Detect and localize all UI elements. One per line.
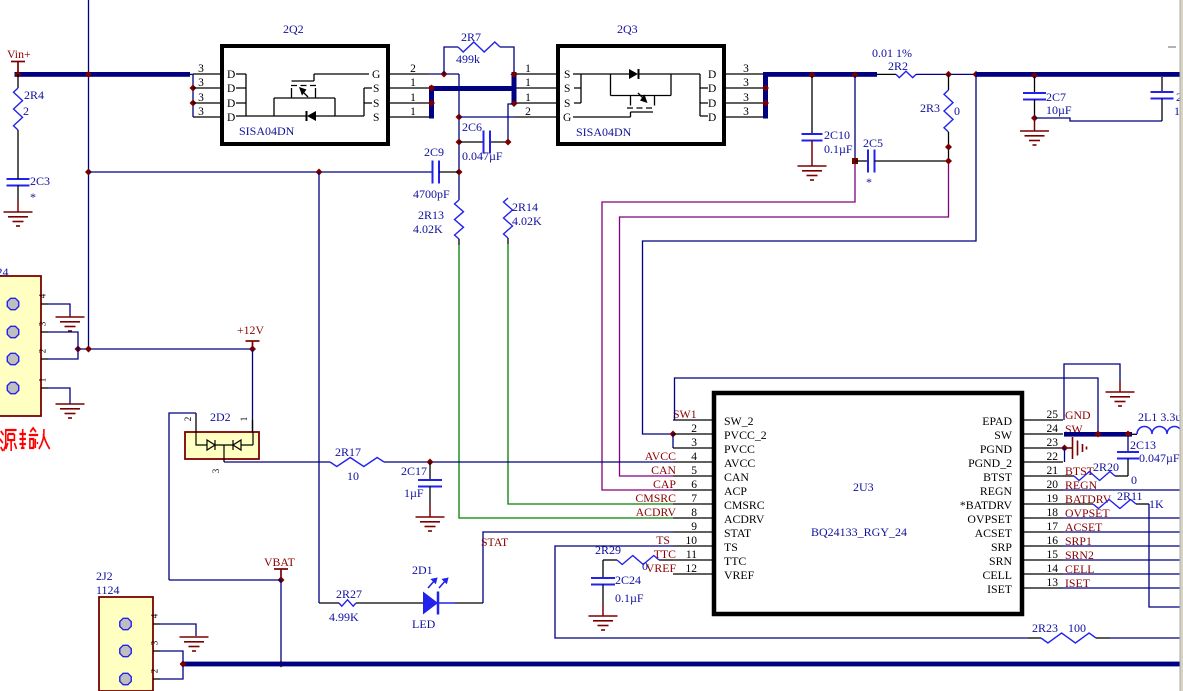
wire VBAT down to battery bus bbox=[280, 580, 282, 664]
svg-text:0.047µF: 0.047µF bbox=[462, 149, 503, 163]
svg-text:2Q3: 2Q3 bbox=[617, 22, 638, 36]
svg-text:CMSRC: CMSRC bbox=[635, 491, 676, 505]
wire STAT net bbox=[483, 532, 673, 603]
svg-text:G: G bbox=[372, 69, 380, 81]
wire thick bar left (2Q2 S pins) bbox=[429, 86, 434, 119]
svg-text:3: 3 bbox=[211, 468, 221, 473]
node x459 y117 bbox=[456, 114, 463, 121]
svg-text:3: 3 bbox=[198, 106, 204, 118]
svg-text:TS: TS bbox=[656, 533, 670, 547]
svg-text:PGND: PGND bbox=[980, 442, 1013, 456]
node 2Q3 D bar junctions bbox=[762, 85, 769, 92]
svg-text:4: 4 bbox=[150, 613, 160, 618]
wire x319 vertical (Vin sense to LED) bbox=[318, 172, 320, 603]
ground below 2C17 bbox=[416, 517, 445, 531]
svg-text:3: 3 bbox=[691, 437, 697, 449]
svg-text:SW_2: SW_2 bbox=[724, 414, 754, 428]
svg-text:2: 2 bbox=[410, 63, 416, 75]
ground below 2C3 bbox=[17, 186, 19, 201]
wire 2C7 bottom to right cap bbox=[1035, 118, 1163, 121]
svg-text:SRP: SRP bbox=[991, 540, 1012, 554]
node SW junctions bbox=[1095, 431, 1102, 438]
svg-text:1124: 1124 bbox=[96, 583, 120, 597]
node x88 bottom bbox=[85, 346, 92, 353]
power port VBAT bbox=[274, 569, 288, 580]
svg-text:2C6: 2C6 bbox=[462, 120, 482, 134]
svg-text:1µF: 1µF bbox=[404, 486, 424, 500]
wire conn pin4 to ground bbox=[48, 304, 70, 317]
svg-text:G: G bbox=[563, 112, 571, 124]
svg-text:S: S bbox=[564, 98, 570, 110]
svg-text:5: 5 bbox=[691, 465, 697, 477]
node 2R3 bottom bbox=[945, 144, 952, 151]
svg-text:PVCC_2: PVCC_2 bbox=[724, 428, 767, 442]
svg-text:AVCC: AVCC bbox=[724, 456, 755, 470]
resistor 2R7 499k bbox=[444, 47, 458, 74]
ground conn pin1 bbox=[56, 404, 85, 418]
svg-text:23: 23 bbox=[1047, 437, 1059, 449]
node 2Q2 S pin junction bbox=[428, 100, 435, 107]
wire VIN+ top bus left segment (thick) bbox=[15, 72, 191, 77]
svg-text:2: 2 bbox=[525, 106, 531, 118]
svg-text:D: D bbox=[227, 98, 235, 110]
svg-text:2R29: 2R29 bbox=[595, 543, 621, 557]
svg-text:2: 2 bbox=[183, 417, 193, 422]
wire ACSET net bbox=[1063, 531, 1181, 533]
svg-text:0: 0 bbox=[1131, 473, 1137, 487]
svg-text:CELL: CELL bbox=[983, 568, 1013, 582]
svg-text:4: 4 bbox=[691, 451, 697, 463]
2U3 left pins 1-12 bbox=[673, 419, 714, 421]
wire 2D2 pin3 to 2R17 bbox=[224, 461, 330, 463]
node VBAT on bus bbox=[278, 661, 285, 668]
wire 2Q3 D bar (thick) bbox=[763, 72, 768, 119]
transistor 2Q2 body bbox=[222, 46, 388, 144]
node x=88 y=172 bbox=[85, 169, 92, 176]
svg-text:3: 3 bbox=[150, 640, 160, 645]
capacitor 2C6 0.047uF bbox=[459, 141, 484, 143]
svg-text:1124: 1124 bbox=[0, 265, 9, 279]
wire 2J2 pin3 to bus bbox=[160, 651, 183, 662]
node 2Q3 S bar top bbox=[511, 71, 518, 78]
svg-text:10: 10 bbox=[347, 469, 359, 483]
node 2Q2 S pin junction row88 bbox=[428, 85, 435, 92]
node 2Q2 D manifold junctions bbox=[190, 85, 197, 92]
wire AVCC row to chip bbox=[430, 461, 673, 463]
wire 2Q2 gate to vertical x459 bbox=[429, 73, 459, 75]
svg-text:3: 3 bbox=[198, 77, 204, 89]
wire vertical x459 gate column bbox=[458, 74, 460, 200]
svg-text:BQ24133_RGY_24: BQ24133_RGY_24 bbox=[811, 525, 907, 539]
svg-text:REGN: REGN bbox=[980, 484, 1013, 498]
svg-text:D: D bbox=[227, 83, 235, 95]
svg-text:2R14: 2R14 bbox=[512, 200, 538, 214]
wire SRN2 net bbox=[1063, 559, 1181, 561]
svg-text:CMSRC: CMSRC bbox=[724, 498, 765, 512]
2D2 internal diodes bbox=[196, 432, 253, 459]
svg-text:22: 22 bbox=[1047, 451, 1059, 463]
svg-text:SRN: SRN bbox=[989, 554, 1012, 568]
svg-text:2R23: 2R23 bbox=[1032, 621, 1058, 635]
node 2C6 right bbox=[505, 139, 512, 146]
2Q3 body diode (solid) bbox=[629, 69, 638, 79]
sheet right edge bbox=[1181, 0, 1183, 691]
wire top bus thick mid segment bbox=[763, 72, 877, 77]
capacitor 2C8 (clipped at sheet edge) bbox=[1161, 77, 1163, 92]
node VBAT bbox=[278, 577, 285, 584]
svg-text:S: S bbox=[373, 83, 379, 95]
capacitor 2C3 bbox=[7, 179, 30, 186]
svg-text:2C7: 2C7 bbox=[1046, 90, 1066, 104]
wire TS net loop bbox=[555, 546, 1028, 638]
svg-text:D: D bbox=[708, 112, 716, 124]
resistor 2R20 0 bbox=[1063, 475, 1074, 477]
svg-text:2Q2: 2Q2 bbox=[283, 22, 304, 36]
svg-text:1: 1 bbox=[239, 417, 249, 422]
wire conn pin3 bbox=[48, 332, 78, 349]
2Q2 internal mosfet symbol bbox=[236, 74, 372, 116]
wire PVCC_2/PVCC link bbox=[672, 434, 674, 448]
ground 2J2 pin4 bbox=[180, 637, 209, 651]
2D2 pin 1 bbox=[252, 420, 254, 432]
svg-text:2C3: 2C3 bbox=[30, 174, 50, 188]
svg-text:0: 0 bbox=[954, 104, 960, 118]
2U3 right pins 25-13 bbox=[1022, 419, 1063, 421]
wire AVCC net: bus to pin4 region bbox=[643, 77, 977, 434]
svg-text:20: 20 bbox=[1047, 479, 1059, 491]
svg-text:12: 12 bbox=[686, 563, 698, 575]
capacitor 2C9 4700pF bbox=[89, 171, 433, 173]
wire +12V row bbox=[78, 348, 253, 350]
svg-text:2L1 3.3u: 2L1 3.3u bbox=[1138, 410, 1181, 424]
svg-text:2R7: 2R7 bbox=[461, 30, 481, 44]
svg-text:STAT: STAT bbox=[481, 535, 509, 549]
resistor 2R13 4.02K bbox=[455, 200, 464, 239]
wire bus stub to 2Q2 pins bbox=[188, 73, 193, 75]
power port Vin+ bbox=[11, 62, 25, 75]
svg-text:13: 13 bbox=[1047, 577, 1059, 589]
svg-text:2R20: 2R20 bbox=[1093, 460, 1119, 474]
svg-text:3: 3 bbox=[198, 92, 204, 104]
connector 2J2 pins bbox=[153, 623, 160, 625]
wire jog from S bar to 2C6/2R14 column bbox=[508, 104, 513, 142]
svg-text:2: 2 bbox=[23, 104, 29, 118]
connector 2J2 body bbox=[99, 597, 153, 691]
svg-text:24: 24 bbox=[1047, 423, 1059, 435]
connector 2J2 pads bbox=[120, 618, 131, 629]
resistor 2R27 4.99K bbox=[339, 600, 356, 606]
transistor 2Q3 body bbox=[558, 46, 724, 144]
svg-text:OVPSET: OVPSET bbox=[967, 512, 1012, 526]
svg-text:4700pF: 4700pF bbox=[413, 187, 450, 201]
svg-text:2D2: 2D2 bbox=[210, 410, 231, 424]
resistor 2R23 100 bbox=[1028, 637, 1041, 639]
svg-text:2C17: 2C17 bbox=[401, 464, 427, 478]
svg-text:1: 1 bbox=[410, 92, 416, 104]
wire green 2R14 to CMSRC pin 7 bbox=[507, 238, 509, 244]
svg-text:6: 6 bbox=[691, 479, 697, 491]
node x459 y142 (2C6 left) bbox=[456, 139, 463, 146]
wire vertical x855 bus to 2C5 bbox=[852, 72, 859, 79]
wire bottom battery bus (thick) bbox=[182, 662, 1183, 667]
svg-text:1: 1 bbox=[38, 378, 48, 383]
svg-text:S: S bbox=[373, 112, 379, 124]
svg-text:3: 3 bbox=[743, 92, 749, 104]
node 2C9 row x319 bbox=[316, 169, 323, 176]
2Q3 right pins D x4 bbox=[724, 73, 765, 75]
svg-text:21: 21 bbox=[1047, 465, 1059, 477]
svg-text:1: 1 bbox=[1174, 104, 1180, 118]
node bus left end bbox=[180, 661, 187, 668]
wire +12V down to 2D2 pin1 bbox=[252, 349, 254, 432]
wire BATDRV net down right side bbox=[1149, 504, 1181, 607]
svg-text:PVCC: PVCC bbox=[724, 442, 755, 456]
wire VBAT row bbox=[169, 579, 281, 581]
svg-text:2C10: 2C10 bbox=[824, 128, 850, 142]
2Q3 left pins S,S,S,G bbox=[517, 73, 559, 75]
connector 2J1 (clipped) body bbox=[0, 276, 41, 416]
svg-text:2R4: 2R4 bbox=[24, 88, 44, 102]
svg-text:4.02K: 4.02K bbox=[512, 214, 542, 228]
svg-text:LED: LED bbox=[412, 617, 436, 631]
svg-text:VBAT: VBAT bbox=[264, 555, 296, 569]
svg-text:15: 15 bbox=[1047, 549, 1059, 561]
svg-text:GND: GND bbox=[1065, 408, 1091, 422]
svg-text:SW: SW bbox=[994, 428, 1013, 442]
wire SRP1 net bbox=[1063, 545, 1181, 547]
node 2C7 bottom bbox=[1031, 115, 1038, 122]
node 2C5 left junction (square) bbox=[852, 158, 858, 164]
node 2R2/2R3 junction bbox=[945, 71, 952, 78]
2Q2 body diode (solid) bbox=[307, 111, 316, 121]
svg-text:1: 1 bbox=[410, 106, 416, 118]
svg-text:2U3: 2U3 bbox=[853, 480, 874, 494]
capacitor 2C24 0.1uF bbox=[602, 560, 604, 578]
svg-text:2C24: 2C24 bbox=[615, 573, 641, 587]
resistor 2R11 1K bbox=[1063, 503, 1093, 505]
svg-text:2R17: 2R17 bbox=[335, 445, 361, 459]
wire green 2R13 to ACDRV pin 8 bbox=[458, 239, 460, 245]
wire GND net to ground top right bbox=[1064, 364, 1120, 420]
svg-text:*: * bbox=[30, 190, 36, 204]
wire vertical x=88 from sheet top through bus down to +12V row bbox=[88, 0, 90, 349]
2D2 pin 3 bbox=[223, 459, 225, 462]
svg-text:1: 1 bbox=[525, 92, 531, 104]
svg-text:2R13: 2R13 bbox=[418, 208, 444, 222]
svg-text:2C5: 2C5 bbox=[863, 136, 883, 150]
wire SW thick bus bbox=[1064, 432, 1132, 437]
node x459 y172 (2C9) bbox=[456, 169, 463, 176]
capacitor 2C17 1uF bbox=[429, 462, 431, 480]
wire CELL net bbox=[1063, 573, 1181, 575]
svg-text:8: 8 bbox=[691, 507, 697, 519]
svg-text:3: 3 bbox=[198, 63, 204, 75]
svg-text:11: 11 bbox=[686, 549, 697, 561]
resistor 2R3 0 bbox=[948, 74, 950, 90]
capacitor 2C7 10uF bbox=[1031, 72, 1038, 79]
IC 2U3 BQ24133_RGY_24 body bbox=[714, 393, 1022, 614]
inductor 2L1 3.3uH bbox=[1132, 433, 1137, 435]
svg-text:SISA04DN: SISA04DN bbox=[239, 124, 295, 138]
svg-text:1K: 1K bbox=[1149, 497, 1164, 511]
svg-text:17: 17 bbox=[1047, 521, 1059, 533]
svg-text:100: 100 bbox=[1068, 621, 1086, 635]
svg-text:4: 4 bbox=[38, 293, 48, 298]
ground GND net bbox=[1106, 392, 1135, 406]
svg-text:3: 3 bbox=[743, 77, 749, 89]
wire purple CAN net: 2C5 right to CAN pin5 bbox=[620, 164, 949, 476]
svg-text:9: 9 bbox=[691, 521, 697, 533]
wire 2Q3 gate row y117 bbox=[459, 116, 515, 118]
svg-text:D: D bbox=[708, 83, 716, 95]
node bus x=88 bbox=[85, 71, 92, 78]
svg-text:CAN: CAN bbox=[724, 470, 749, 484]
svg-text:ACDRV: ACDRV bbox=[724, 512, 765, 526]
svg-text:2J2: 2J2 bbox=[96, 569, 113, 583]
wire conn pin2 bbox=[48, 349, 78, 359]
svg-text:*: * bbox=[866, 175, 872, 189]
svg-text:2D1: 2D1 bbox=[412, 563, 433, 577]
svg-text:1: 1 bbox=[525, 63, 531, 75]
ground below 2C7 bbox=[1034, 118, 1036, 131]
svg-text:SW1: SW1 bbox=[673, 407, 697, 421]
svg-text:1: 1 bbox=[410, 77, 416, 89]
svg-text:EPAD: EPAD bbox=[982, 414, 1012, 428]
svg-text:AVCC: AVCC bbox=[645, 449, 676, 463]
svg-text:2: 2 bbox=[38, 349, 48, 354]
svg-text:S: S bbox=[373, 98, 379, 110]
svg-text:SISA04DN: SISA04DN bbox=[576, 125, 632, 139]
svg-text:1: 1 bbox=[525, 77, 531, 89]
svg-text:0.01 1%: 0.01 1% bbox=[872, 46, 912, 60]
svg-text:D: D bbox=[227, 69, 235, 81]
svg-text:BTST: BTST bbox=[983, 470, 1013, 484]
capacitor 2C13 0.047uF bbox=[1127, 436, 1129, 452]
wire OVPSET net bbox=[1063, 517, 1181, 519]
svg-text:ACDRV: ACDRV bbox=[636, 505, 677, 519]
svg-text:D: D bbox=[708, 69, 716, 81]
wire purple CAP net: 2C5 left to ACP pin6 bbox=[602, 164, 855, 490]
svg-text:14: 14 bbox=[1047, 563, 1059, 575]
wire 2J2 pin2 to bus bbox=[160, 666, 183, 679]
svg-text:Vin+: Vin+ bbox=[7, 47, 31, 61]
svg-text:D: D bbox=[708, 98, 716, 110]
svg-text:VREF: VREF bbox=[646, 561, 677, 575]
2Q2 left pins D x4 bbox=[193, 73, 222, 75]
node 2C5 right junction bbox=[945, 158, 952, 165]
wire 2D2 pin2 up-left-down to VBAT node bbox=[169, 413, 196, 580]
svg-text:ISET: ISET bbox=[987, 582, 1013, 596]
wire thick bar right (2Q3 S pins) bbox=[512, 72, 517, 104]
svg-text:10µF: 10µF bbox=[1046, 103, 1072, 117]
svg-text:D: D bbox=[227, 112, 235, 124]
svg-text:ACP: ACP bbox=[724, 484, 747, 498]
connector 2J1 pins bbox=[41, 303, 48, 305]
connector 2J1 pads bbox=[7, 298, 18, 309]
svg-text:ACSET: ACSET bbox=[975, 526, 1013, 540]
svg-text:2C9: 2C9 bbox=[424, 145, 444, 159]
ground below 2C24 bbox=[589, 616, 618, 630]
svg-text:0.1µF: 0.1µF bbox=[824, 142, 853, 156]
svg-text:2: 2 bbox=[691, 423, 697, 435]
wire conn pin1 to ground bbox=[48, 388, 70, 404]
svg-text:3: 3 bbox=[38, 321, 48, 326]
svg-text:25: 25 bbox=[1047, 409, 1059, 421]
wire SW1 net bbox=[675, 378, 1099, 432]
svg-text:0.1µF: 0.1µF bbox=[615, 591, 644, 605]
svg-text:2R3: 2R3 bbox=[920, 101, 940, 115]
capacitor 2C10 0.1uF bbox=[809, 72, 816, 79]
capacitor 2C5 * bbox=[855, 160, 868, 162]
resistor 2R2 0.01 1% bbox=[877, 73, 896, 75]
svg-text:7: 7 bbox=[691, 493, 697, 505]
ground conn pin4 bbox=[56, 317, 85, 331]
wire thick horizontal bar bbox=[429, 86, 516, 91]
svg-text:STAT: STAT bbox=[724, 526, 752, 540]
svg-text:*BATDRV: *BATDRV bbox=[960, 498, 1013, 512]
resistor 2R14 4.02K bbox=[504, 198, 513, 238]
wire ISET net bbox=[1063, 587, 1181, 589]
svg-text:4.02K: 4.02K bbox=[413, 222, 443, 236]
svg-text:2R11: 2R11 bbox=[1117, 489, 1143, 503]
node +12V junction bbox=[249, 346, 256, 353]
svg-text:S: S bbox=[564, 83, 570, 95]
svg-text:+12V: +12V bbox=[237, 323, 264, 337]
2D2 pin 2 bbox=[195, 413, 197, 432]
resistor 2R29 0 bbox=[603, 559, 617, 561]
svg-text:2R27: 2R27 bbox=[336, 587, 362, 601]
2Q3 bulk arrow bbox=[640, 95, 648, 104]
node Vin+ junction on bus bbox=[15, 71, 22, 78]
svg-text:VREF: VREF bbox=[724, 568, 755, 582]
wire 2Q2 drain pin manifold vertical bbox=[192, 74, 194, 117]
svg-text:TTC: TTC bbox=[724, 554, 746, 568]
2Q3 internal mosfet symbol bbox=[573, 74, 708, 117]
svg-text:TS: TS bbox=[724, 540, 738, 554]
svg-text:4.99K: 4.99K bbox=[329, 610, 359, 624]
svg-text:2C13: 2C13 bbox=[1130, 438, 1156, 452]
node 2C17 tap bbox=[427, 459, 434, 466]
node 2Q3 S bar bottom bbox=[511, 100, 518, 107]
rotated power ground PGND pins 22/23 bbox=[1061, 445, 1068, 452]
svg-text:PGND_2: PGND_2 bbox=[968, 456, 1012, 470]
2Q2 bulk arrow bbox=[299, 87, 307, 96]
node conn junction bbox=[75, 346, 82, 353]
node bus resume junction bbox=[973, 71, 980, 78]
svg-text:3: 3 bbox=[743, 63, 749, 75]
label power input (Chinese, clipped) bbox=[0, 428, 50, 451]
svg-text:18: 18 bbox=[1047, 507, 1059, 519]
svg-text:CAN: CAN bbox=[651, 463, 676, 477]
wire REGN net bbox=[1063, 489, 1181, 491]
svg-text:10: 10 bbox=[686, 535, 698, 547]
svg-text:16: 16 bbox=[1047, 535, 1059, 547]
LED 2D1 bbox=[455, 602, 483, 604]
svg-text:3: 3 bbox=[743, 106, 749, 118]
svg-text:0.047µF: 0.047µF bbox=[1139, 451, 1180, 465]
node gate junction 2R7 left bbox=[441, 71, 448, 78]
resistor 2R4 bbox=[17, 74, 19, 88]
wire top bus thick right segment bbox=[976, 72, 1183, 77]
svg-text:2R2: 2R2 bbox=[888, 59, 908, 73]
wire 2J2 pin4 to ground bbox=[160, 624, 196, 636]
svg-text:S: S bbox=[564, 69, 570, 81]
resistor 2R17 10 bbox=[330, 458, 384, 467]
2Q2 right pins G,S,S,S bbox=[388, 73, 429, 75]
power port +12V bbox=[246, 341, 260, 349]
wire 2R17 to AVCC bbox=[384, 461, 430, 463]
node PVCC junction bbox=[670, 431, 677, 438]
